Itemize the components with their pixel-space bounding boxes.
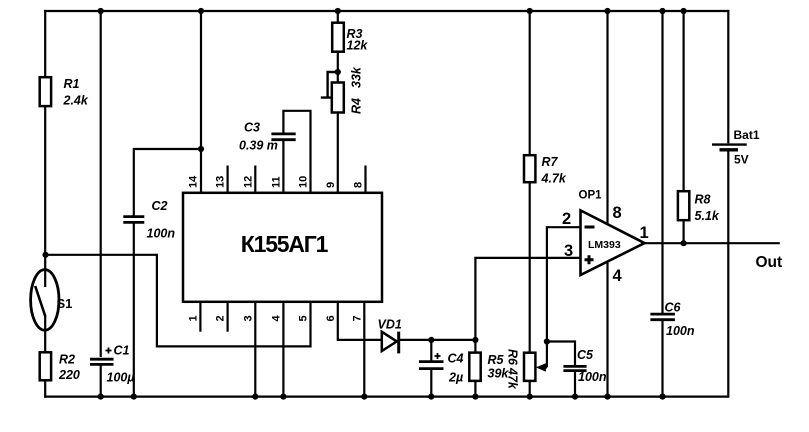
wire C6 to bottom rail — [661, 320, 663, 396]
svg-text:11: 11 — [270, 176, 282, 188]
wire V+ rail to C1 — [100, 11, 102, 357]
svg-text:7: 7 — [351, 315, 363, 321]
svg-text:VD1: VD1 — [378, 318, 402, 332]
wire R1 to S1 — [44, 106, 46, 287]
pin 8 stub — [353, 166, 366, 193]
wire C2 top branch — [134, 149, 201, 217]
node C6 bottom — [659, 394, 665, 400]
pin 2 stub — [215, 302, 228, 332]
node top rail x=201 — [198, 8, 204, 14]
node wiper / C5 branch — [544, 338, 550, 344]
svg-text:8: 8 — [613, 204, 622, 222]
op-amp OP1 LM393 — [579, 190, 645, 276]
svg-text:R2: R2 — [59, 353, 75, 367]
svg-text:OP1: OP1 — [579, 190, 603, 202]
wire C4 top — [430, 340, 432, 361]
svg-text:100µ: 100µ — [107, 371, 135, 385]
node C4 top — [428, 337, 434, 343]
svg-text:6: 6 — [325, 315, 337, 321]
pin 4 / wire to bottom rail — [270, 302, 283, 397]
node pin 4 bottom — [280, 394, 286, 400]
wire to C5 — [547, 342, 575, 367]
wire battery to bottom rail — [727, 152, 729, 398]
svg-text:2µ: 2µ — [448, 371, 463, 385]
svg-text:R7: R7 — [542, 155, 559, 169]
node left rail tee — [42, 252, 48, 258]
node pin 3 bottom — [252, 394, 258, 400]
svg-text:220: 220 — [58, 368, 80, 382]
trimmer R6 — [506, 349, 547, 390]
pin 1 stub — [187, 302, 200, 332]
svg-text:R5: R5 — [488, 353, 505, 367]
svg-text:C1: C1 — [114, 344, 130, 358]
pin 7 / wire to bottom rail — [351, 302, 364, 397]
svg-text:3: 3 — [242, 315, 254, 321]
node C1 bottom — [98, 394, 104, 400]
IC U1 K155AG1 — [183, 193, 382, 302]
svg-text:S1: S1 — [57, 296, 73, 311]
wire top rail to C6 — [661, 11, 663, 314]
capacitor C6 — [650, 301, 694, 339]
svg-text:C2: C2 — [152, 199, 168, 213]
svg-text:33k: 33k — [350, 66, 364, 88]
svg-text:5.1k: 5.1k — [695, 209, 720, 223]
capacitor C2 — [123, 199, 175, 241]
wire R6 to bottom rail — [529, 381, 531, 397]
wire top rail to op-amp pin 8 — [606, 11, 608, 225]
pin 3 / wire to bottom rail — [242, 302, 255, 397]
svg-text:4.7k: 4.7k — [541, 172, 567, 186]
wire R5 top — [474, 340, 476, 353]
svg-text:1: 1 — [187, 315, 199, 321]
svg-text:2: 2 — [215, 315, 227, 321]
resistor R3 — [332, 23, 368, 53]
node R6 bottom — [527, 394, 533, 400]
resistor R2 — [40, 352, 80, 382]
wire R5 node to op-amp pin 3 — [475, 258, 580, 340]
node R5 top — [472, 337, 478, 343]
capacitor C1 — [90, 344, 135, 385]
wire bottom rail — [44, 396, 728, 398]
svg-text:R6: R6 — [506, 349, 520, 366]
wire right rail battery top — [727, 10, 729, 144]
diode VD1 — [378, 318, 402, 354]
svg-text:10: 10 — [298, 176, 310, 188]
wire C1 to bottom rail — [100, 366, 102, 397]
node R8 output — [681, 240, 687, 246]
wire top rail to R3 — [337, 11, 339, 23]
node C5 bottom — [572, 394, 578, 400]
wire top rail to pin 14 — [200, 11, 202, 193]
node C2 bottom — [131, 394, 137, 400]
node C4 bottom — [428, 394, 434, 400]
pin 13 stub — [215, 166, 228, 193]
resistor R1 — [40, 77, 89, 108]
svg-text:LM393: LM393 — [588, 239, 621, 251]
svg-text:14: 14 — [188, 175, 200, 188]
resistor R7 — [524, 155, 567, 186]
node R4 top tap junction — [335, 69, 341, 75]
svg-text:100n: 100n — [147, 227, 176, 241]
svg-text:9: 9 — [325, 182, 337, 188]
svg-text:Out: Out — [756, 254, 783, 271]
wire C5 to bottom rail — [574, 371, 576, 397]
svg-text:К155АГ1: К155АГ1 — [241, 231, 329, 257]
capacitor C5 — [563, 348, 606, 384]
wire op-amp pin 4 to bottom rail — [606, 262, 608, 397]
svg-text:C4: C4 — [448, 352, 464, 366]
wire VD1 to R5 node — [400, 339, 476, 341]
capacitor C3 — [239, 121, 296, 153]
svg-text:4: 4 — [613, 267, 623, 285]
pin 12 stub — [242, 166, 255, 193]
battery Bat1 — [712, 128, 760, 167]
wire left rail upper — [44, 10, 46, 77]
wire C2 to bottom rail — [133, 223, 135, 397]
svg-text:3: 3 — [564, 242, 573, 260]
wire op-amp pin 2 to R6 wiper — [547, 227, 581, 367]
wire top rail to R7 — [529, 11, 531, 155]
pin 5 / wire to left rail — [45, 255, 311, 347]
node R5 bottom — [472, 394, 478, 400]
node top rail x=607 — [604, 8, 610, 14]
wire top rail to R8 — [682, 11, 684, 191]
svg-text:2.4k: 2.4k — [63, 94, 89, 108]
switch S1 — [31, 270, 73, 331]
wire R8 to output — [682, 220, 684, 243]
svg-text:4: 4 — [270, 315, 282, 322]
svg-text:C6: C6 — [665, 301, 682, 315]
resistor R5 — [469, 353, 509, 381]
svg-text:2: 2 — [562, 210, 571, 228]
svg-text:8: 8 — [353, 182, 365, 188]
wire R2 to bottom rail — [44, 380, 46, 397]
svg-text:47k: 47k — [506, 367, 520, 390]
node top rail x=662 — [659, 8, 665, 14]
svg-text:C3: C3 — [244, 121, 260, 135]
wire C3 loop — [283, 111, 310, 193]
svg-text:R1: R1 — [64, 77, 80, 91]
svg-text:12k: 12k — [347, 39, 369, 53]
capacitor C4 — [419, 352, 464, 385]
node pin14 / C2 branch — [198, 146, 204, 152]
svg-text:13: 13 — [215, 176, 227, 188]
wire C4 to bottom rail — [430, 370, 432, 397]
wire R5 to bottom rail — [474, 381, 476, 397]
svg-text:R4: R4 — [350, 98, 364, 114]
svg-text:R8: R8 — [695, 193, 711, 207]
svg-text:0.39 m: 0.39 m — [239, 139, 278, 153]
node top rail x=684 — [681, 8, 687, 14]
resistor R8 — [678, 191, 720, 223]
node top rail x=530 — [527, 8, 533, 14]
node top rail x=101 — [98, 8, 104, 14]
svg-text:1: 1 — [640, 224, 649, 242]
wire S1 to R2 — [44, 316, 46, 352]
svg-text:5V: 5V — [734, 153, 749, 167]
wire top rail — [44, 10, 729, 12]
pin 6 / wire to VD1 — [325, 302, 382, 340]
svg-text:C5: C5 — [577, 348, 594, 362]
svg-text:100n: 100n — [666, 324, 695, 338]
wire R7 to R6 — [529, 182, 531, 353]
node pin 4 bottom rail — [604, 394, 610, 400]
svg-text:12: 12 — [242, 176, 254, 188]
wire R4 to pin 9 — [337, 113, 339, 193]
trimmer R4 — [321, 66, 364, 114]
wire op-amp output — [645, 242, 780, 244]
node pin 7 bottom — [361, 394, 367, 400]
node top rail x=338 — [335, 8, 341, 14]
wire R3 to R4 — [337, 52, 339, 83]
svg-text:5: 5 — [298, 315, 310, 321]
svg-text:Bat1: Bat1 — [734, 128, 760, 142]
svg-text:100n: 100n — [578, 370, 607, 384]
